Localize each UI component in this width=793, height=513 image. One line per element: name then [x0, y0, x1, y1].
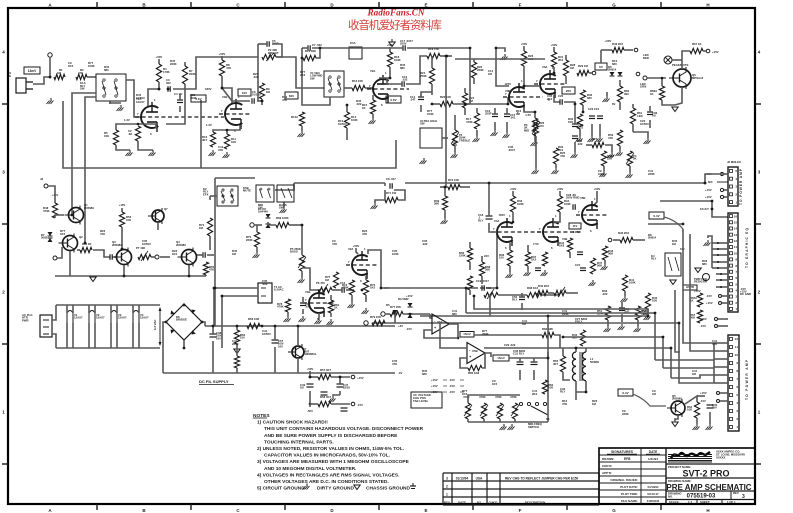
svg-text:4K7: 4K7: [202, 138, 208, 142]
svg-text:2K2: 2K2: [532, 392, 538, 396]
svg-text:47K: 47K: [712, 342, 717, 346]
svg-text:01/13/94: 01/13/94: [648, 485, 659, 489]
svg-text:15mV: 15mV: [463, 332, 471, 336]
svg-text:100K: 100K: [517, 202, 524, 206]
svg-text:10: 10: [735, 353, 739, 357]
svg-text:100K: 100K: [598, 172, 605, 176]
svg-text:FILE NAME:: FILE NAME:: [621, 499, 638, 503]
svg-text:SWITCH: SWITCH: [528, 425, 539, 429]
svg-text:84V: 84V: [289, 94, 294, 98]
svg-text:100K: 100K: [427, 112, 434, 116]
svg-text:100K: 100K: [394, 58, 401, 62]
svg-text:6V: 6V: [599, 65, 603, 69]
svg-text:CHK'D:: CHK'D:: [602, 464, 612, 468]
svg-text:1M: 1M: [652, 392, 657, 396]
svg-text:1 OF 1: 1 OF 1: [727, 500, 736, 504]
svg-text:+50V: +50V: [551, 43, 558, 47]
svg-text:0.4V: 0.4V: [653, 214, 659, 218]
svg-text:10K: 10K: [652, 299, 657, 303]
svg-text:+50V: +50V: [353, 244, 360, 248]
svg-text:C20: C20: [558, 94, 564, 98]
svg-text:+50V: +50V: [594, 187, 601, 191]
svg-text:SIGNATURES: SIGNATURES: [611, 450, 634, 454]
svg-text:180V: 180V: [205, 87, 212, 91]
svg-text:09:43:17: 09:43:17: [647, 492, 659, 496]
svg-text:R77 20K: R77 20K: [390, 305, 401, 309]
svg-text:1M: 1M: [488, 72, 493, 76]
svg-text:PWR: PWR: [22, 318, 29, 322]
svg-text:22K: 22K: [607, 157, 612, 161]
svg-text:1K5: 1K5: [531, 258, 537, 262]
svg-text:H: H: [706, 508, 709, 513]
svg-text:.022: .022: [356, 102, 362, 106]
svg-text:1K5: 1K5: [60, 232, 66, 236]
svg-text:.022: .022: [422, 242, 428, 246]
svg-text:RED/GRN: RED/GRN: [694, 280, 707, 284]
svg-text:10V: 10V: [242, 91, 247, 95]
svg-text:1M: 1M: [570, 66, 575, 70]
svg-text:R57 4K7: R57 4K7: [320, 368, 331, 372]
svg-text:2K2: 2K2: [300, 73, 306, 77]
svg-text:10/100: 10/100: [252, 93, 261, 97]
svg-text:16V: 16V: [278, 344, 283, 348]
svg-text:1.5V: 1.5V: [525, 113, 531, 117]
svg-text:.022: .022: [305, 305, 311, 309]
svg-text:220K: 220K: [232, 342, 239, 346]
svg-text:220K: 220K: [246, 238, 253, 242]
svg-text:-15V: -15V: [700, 399, 706, 403]
svg-text:SW: SW: [279, 206, 284, 210]
svg-text:H: H: [706, 3, 709, 8]
svg-text:C7 .022: C7 .022: [312, 43, 322, 47]
svg-text:DC FIL SUPPLY: DC FIL SUPPLY: [199, 379, 229, 384]
svg-text:+50V: +50V: [219, 52, 226, 56]
svg-text:Q2: Q2: [79, 235, 83, 239]
svg-text:XXXXX: XXXXX: [716, 455, 725, 459]
svg-text:DATE: DATE: [458, 501, 466, 505]
svg-text:5) CIRCUIT GROUND: 5) CIRCUIT GROUND: [257, 486, 305, 492]
svg-text:MID: MID: [524, 128, 529, 132]
svg-text:.0047: .0047: [508, 148, 515, 152]
svg-text:1N4448: 1N4448: [258, 210, 268, 214]
svg-text:470: 470: [539, 124, 544, 128]
svg-text:12AX7: 12AX7: [136, 100, 145, 104]
svg-text:2N5089: 2N5089: [176, 243, 186, 247]
svg-text:2N5089: 2N5089: [84, 206, 94, 210]
svg-text:R38 1K2: R38 1K2: [527, 286, 538, 290]
svg-text:100K: 100K: [351, 118, 358, 122]
svg-text:25V: 25V: [712, 406, 717, 410]
svg-text:R49 2K2: R49 2K2: [612, 42, 623, 46]
svg-text:10K: 10K: [231, 140, 236, 144]
svg-text:J3: J3: [40, 177, 44, 181]
svg-text:CHK'D: CHK'D: [489, 501, 498, 505]
svg-text:10K: 10K: [104, 134, 109, 138]
svg-text:1K: 1K: [334, 306, 338, 310]
svg-text:V3B: V3B: [505, 89, 510, 93]
svg-text:J2 MOLEX: J2 MOLEX: [727, 160, 741, 164]
svg-text:10K: 10K: [126, 218, 131, 222]
svg-text:01/13/94: 01/13/94: [456, 477, 469, 481]
svg-text:TO GRAPHIC EQ: TO GRAPHIC EQ: [745, 227, 749, 268]
svg-text:100K: 100K: [88, 64, 95, 68]
svg-text:15: 15: [734, 220, 738, 224]
svg-text:+15V: +15V: [705, 188, 712, 192]
svg-text:-15V: -15V: [449, 384, 455, 388]
svg-text:13: 13: [734, 233, 738, 237]
svg-text:DATE: DATE: [649, 450, 657, 454]
svg-text:RLY: RLY: [651, 257, 656, 261]
svg-text:DESCRIPTION: DESCRIPTION: [525, 501, 546, 505]
svg-text:680: 680: [612, 62, 617, 66]
svg-text:1K8: 1K8: [559, 244, 565, 248]
svg-text:1K: 1K: [362, 106, 366, 110]
svg-text:56K: 56K: [608, 252, 613, 256]
svg-text:PEAK/MUTE: PEAK/MUTE: [672, 63, 689, 67]
svg-text:TOUCHING INTERNAL PARTS.: TOUCHING INTERNAL PARTS.: [264, 439, 334, 445]
svg-text:1M: 1M: [672, 242, 677, 246]
svg-text:220K: 220K: [648, 172, 655, 176]
svg-text:150: 150: [499, 256, 504, 260]
svg-text:3: 3: [446, 477, 448, 481]
svg-text:13mV: 13mV: [28, 69, 37, 73]
svg-text:+50V: +50V: [521, 42, 528, 46]
svg-text:R40 2K2: R40 2K2: [538, 284, 549, 288]
svg-text:CAPACITOR VALUES IN MICROFARAD: CAPACITOR VALUES IN MICROFARADS, 50V-10%…: [264, 453, 390, 459]
svg-text:R35 50K: R35 50K: [480, 286, 491, 290]
svg-text:250V: 250V: [400, 42, 407, 46]
svg-text:1M: 1M: [592, 402, 597, 406]
svg-text:1K5: 1K5: [370, 286, 376, 290]
svg-text:-15V: -15V: [449, 378, 455, 382]
svg-text:2N914: 2N914: [608, 68, 617, 72]
svg-text:C29 .022: C29 .022: [504, 343, 516, 347]
svg-text:12: 12: [734, 239, 738, 243]
svg-text:+3V: +3V: [398, 324, 403, 328]
svg-text:100K: 100K: [392, 252, 399, 256]
svg-text:.022: .022: [602, 292, 608, 296]
svg-text:01000432: 01000432: [647, 499, 660, 503]
svg-text:47K: 47K: [452, 143, 457, 147]
svg-text:G: G: [612, 508, 616, 513]
svg-text:REV: REV: [444, 501, 450, 505]
svg-text:.022: .022: [253, 75, 259, 79]
svg-text:PLOT TIME:: PLOT TIME:: [621, 492, 638, 496]
svg-text:250P: 250P: [485, 112, 492, 116]
svg-text:12AX7: 12AX7: [96, 316, 105, 320]
svg-text:SVT-2 PRO: SVT-2 PRO: [682, 469, 729, 479]
svg-text:ORIGINAL ISSUED:: ORIGINAL ISSUED:: [610, 478, 638, 482]
svg-text:IN: IN: [8, 74, 11, 78]
svg-text:SW: SW: [420, 122, 425, 126]
svg-text:R69 100K: R69 100K: [276, 216, 289, 220]
svg-text:+15V: +15V: [706, 301, 713, 305]
svg-text:E: E: [424, 508, 427, 513]
svg-text:+15V: +15V: [700, 317, 707, 321]
svg-text:10: 10: [734, 251, 738, 255]
svg-text:RLY: RLY: [478, 218, 483, 222]
svg-text:TO POWER AMP: TO POWER AMP: [739, 168, 743, 205]
svg-text:0.6V: 0.6V: [390, 98, 396, 102]
svg-text:AND 10 MEGOHM DIGITAL VOLTMETE: AND 10 MEGOHM DIGITAL VOLTMETER.: [264, 466, 356, 472]
svg-text:USA: USA: [476, 477, 483, 481]
svg-text:47K: 47K: [282, 98, 287, 102]
svg-text:R19 47K: R19 47K: [428, 47, 439, 51]
svg-text:150K: 150K: [459, 254, 466, 258]
svg-text:TAB LEVEL: TAB LEVEL: [413, 399, 429, 403]
svg-text:1.3V: 1.3V: [124, 118, 130, 122]
svg-text:V5B: V5B: [580, 196, 585, 200]
svg-text:TREBLE: TREBLE: [459, 138, 470, 142]
svg-text:APP'D:: APP'D:: [602, 471, 612, 475]
svg-text:4K7: 4K7: [553, 362, 559, 366]
svg-text:56K: 56K: [597, 264, 602, 268]
svg-text:220K: 220K: [562, 312, 569, 316]
svg-text:470K: 470K: [342, 286, 349, 290]
svg-text:47K: 47K: [392, 362, 397, 366]
svg-text:1.3V: 1.3V: [206, 123, 212, 127]
svg-text:220K: 220K: [622, 412, 629, 416]
svg-text:+15V: +15V: [357, 376, 364, 380]
svg-text:TO POWER AMP: TO POWER AMP: [745, 359, 749, 400]
svg-text:2K2: 2K2: [558, 148, 564, 152]
svg-text:170K: 170K: [163, 70, 170, 74]
svg-text:47K: 47K: [100, 232, 105, 236]
svg-text:U5B: U5B: [472, 349, 478, 353]
svg-text:2K2: 2K2: [558, 58, 564, 62]
svg-text:+50V: +50V: [156, 55, 163, 59]
svg-text:12AX7: 12AX7: [74, 316, 83, 320]
svg-text:15K: 15K: [568, 120, 573, 124]
svg-text:RLY: RLY: [512, 298, 517, 302]
svg-text:680: 680: [400, 66, 405, 70]
svg-text:-3V: -3V: [398, 371, 402, 375]
svg-text:.022: .022: [577, 142, 583, 146]
svg-text:165V: 165V: [498, 213, 505, 217]
svg-text:47K: 47K: [608, 136, 613, 140]
svg-text:+15V: +15V: [700, 391, 707, 395]
svg-text:F: F: [519, 3, 522, 8]
svg-text:470K: 470K: [277, 305, 284, 309]
svg-text:C22: C22: [578, 126, 584, 130]
svg-text:14: 14: [734, 227, 738, 231]
svg-text:47K: 47K: [226, 66, 231, 70]
svg-text:10/50V: 10/50V: [262, 332, 271, 336]
svg-text:THERMAL: THERMAL: [303, 352, 317, 356]
svg-text:470K: 470K: [43, 209, 50, 213]
svg-text:C8 .047: C8 .047: [386, 177, 396, 181]
svg-text:56K: 56K: [485, 268, 490, 272]
svg-text:075519-03: 075519-03: [687, 494, 716, 500]
svg-text:BY: BY: [477, 501, 481, 505]
svg-text:C4 10/: C4 10/: [174, 92, 182, 96]
svg-text:R79 10K: R79 10K: [370, 315, 381, 319]
svg-text:47K: 47K: [332, 242, 337, 246]
svg-text:12AX7: 12AX7: [118, 316, 127, 320]
svg-text:22/25: 22/25: [343, 386, 350, 390]
svg-text:47K: 47K: [560, 154, 565, 158]
svg-text:2: 2: [446, 485, 448, 489]
svg-text:R67 1K: R67 1K: [692, 42, 701, 46]
svg-text:16: 16: [734, 214, 738, 218]
svg-text:G: G: [612, 3, 616, 8]
svg-text:-15V: -15V: [700, 324, 706, 328]
svg-text:220K: 220K: [477, 68, 484, 72]
svg-text:C23 C24: C23 C24: [588, 107, 599, 111]
svg-text:2N5089: 2N5089: [112, 243, 122, 247]
svg-text:150: 150: [240, 336, 245, 340]
svg-text:680: 680: [422, 372, 427, 376]
svg-text:+50V: +50V: [605, 39, 612, 43]
svg-text:680: 680: [452, 312, 457, 316]
svg-text:SW: SW: [80, 87, 85, 91]
svg-text:11V: 11V: [573, 224, 578, 228]
svg-text:S3: S3: [546, 417, 550, 421]
svg-text:47K: 47K: [78, 71, 83, 75]
svg-text:2N914: 2N914: [648, 236, 657, 240]
svg-text:.022: .022: [402, 78, 408, 82]
svg-text:1M: 1M: [199, 226, 204, 230]
svg-text:N/C: N/C: [708, 180, 713, 184]
svg-text:P7 10K: P7 10K: [136, 246, 145, 250]
svg-text:F: F: [519, 508, 522, 513]
svg-text:10/50V: 10/50V: [640, 122, 649, 126]
svg-text:1M: 1M: [516, 112, 521, 116]
svg-text:+15V: +15V: [712, 50, 719, 54]
svg-text:47K: 47K: [562, 402, 567, 406]
svg-text:V3A: V3A: [542, 65, 547, 69]
svg-text:EFB: EFB: [624, 457, 631, 461]
svg-text:+15V: +15V: [406, 294, 413, 298]
svg-text:-15V: -15V: [706, 294, 712, 298]
svg-text:FAULT: FAULT: [700, 207, 709, 211]
svg-text:47K: 47K: [362, 232, 367, 236]
svg-text:10/50V: 10/50V: [338, 122, 347, 126]
svg-text:15mV: 15mV: [497, 356, 505, 360]
svg-text:25V: 25V: [566, 89, 571, 93]
svg-text:.047: .047: [410, 98, 416, 102]
svg-text:680: 680: [587, 96, 592, 100]
svg-text:220K: 220K: [170, 62, 177, 66]
svg-text:THIS UNIT CONTAINS HAZARDOUS V: THIS UNIT CONTAINS HAZARDOUS VOLTAGE. DI…: [264, 426, 424, 432]
svg-text:390: 390: [624, 92, 629, 96]
svg-text:-15V: -15V: [406, 327, 412, 331]
svg-text:R12 10K: R12 10K: [352, 79, 363, 83]
svg-text:680: 680: [702, 262, 707, 266]
svg-text:R46 2K2: R46 2K2: [618, 231, 629, 235]
svg-text:R72 10K: R72 10K: [448, 178, 459, 182]
svg-text:1K5: 1K5: [68, 64, 74, 68]
svg-text:470K: 470K: [466, 120, 473, 124]
svg-text:BRIDGE: BRIDGE: [176, 318, 187, 322]
svg-text:10/50V: 10/50V: [136, 96, 145, 100]
svg-text:MPSA13: MPSA13: [692, 76, 704, 80]
svg-text:MUTE: MUTE: [243, 189, 251, 193]
svg-text:100K: 100K: [629, 281, 636, 285]
svg-text:47K: 47K: [218, 148, 223, 152]
svg-text:24V: 24V: [484, 254, 489, 258]
svg-text:Q7: Q7: [164, 207, 168, 211]
svg-text:AND BE SURE POWER SUPPLY IS DI: AND BE SURE POWER SUPPLY IS DISCHARGED B…: [264, 433, 398, 439]
svg-text:145V: 145V: [573, 230, 580, 234]
svg-text:NO.: NO.: [668, 494, 673, 498]
svg-text:10/: 10/: [652, 114, 656, 118]
svg-text:-15V: -15V: [357, 403, 363, 407]
svg-text:.022: .022: [642, 312, 648, 316]
svg-text:5K: 5K: [633, 157, 637, 161]
svg-text:3) VOLTAGES ARE MEASURED WITH: 3) VOLTAGES ARE MEASURED WITH 1 MEGOHM O…: [257, 459, 410, 465]
svg-text:+15V: +15V: [431, 384, 438, 388]
svg-text:R27: R27: [592, 137, 598, 141]
svg-text:100K: 100K: [190, 96, 197, 100]
svg-text:REV CHG TO REFLECT JUMPER CHG: REV CHG TO REFLECT JUMPER CHG PER E150: [505, 477, 578, 481]
svg-text:12AX7: 12AX7: [140, 316, 149, 320]
svg-text:6.3VAC: 6.3VAC: [274, 288, 284, 292]
svg-text:SW: SW: [310, 76, 315, 80]
svg-text:5082: 5082: [41, 236, 48, 240]
svg-text:R14A: R14A: [291, 115, 298, 119]
svg-text:REV: REV: [733, 491, 739, 495]
svg-text:RLY: RLY: [560, 390, 565, 394]
svg-text:+50V: +50V: [557, 187, 564, 191]
svg-text:220K: 220K: [189, 72, 196, 76]
svg-text:.022: .022: [262, 282, 268, 286]
svg-text:1: 1: [446, 493, 448, 497]
svg-text:250K: 250K: [420, 74, 427, 78]
svg-text:2) UNLESS NOTED, RESISTOR VALU: 2) UNLESS NOTED, RESISTOR VALUES IN OHMS…: [257, 446, 404, 452]
svg-text:1/31/94: 1/31/94: [648, 457, 658, 461]
svg-text:2N5089: 2N5089: [672, 397, 682, 401]
svg-text:100K: 100K: [564, 202, 571, 206]
svg-text:收音机爱好者资料库: 收音机爱好者资料库: [348, 18, 442, 32]
svg-text:R82 1K8: R82 1K8: [468, 371, 479, 375]
svg-text:-50V: -50V: [307, 409, 313, 413]
svg-text:LED: LED: [637, 114, 643, 118]
svg-text:1K: 1K: [650, 92, 654, 96]
svg-text:1K5: 1K5: [462, 392, 468, 396]
svg-text:6.4V: 6.4V: [622, 391, 628, 395]
svg-text:39K: 39K: [434, 202, 439, 206]
svg-text:R71 1W: R71 1W: [386, 191, 396, 195]
svg-text:7.5V: 7.5V: [533, 242, 539, 246]
svg-text:4) VOLTAGES IN RECTANGLES ARE: 4) VOLTAGES IN RECTANGLES ARE RMS SIGNAL…: [257, 472, 399, 478]
svg-text:K3A: K3A: [350, 41, 356, 45]
svg-text:EFX: EFX: [203, 192, 209, 196]
svg-text:V1B: V1B: [305, 290, 310, 294]
svg-text:V1B: V1B: [222, 95, 227, 99]
svg-text:R29 1M: R29 1M: [578, 64, 588, 68]
svg-text:+15V: +15V: [431, 378, 438, 382]
svg-text:250V RND: 250V RND: [566, 196, 579, 200]
svg-text:220K: 220K: [482, 332, 489, 336]
svg-text:BASS: BASS: [290, 250, 298, 254]
svg-text:E: E: [424, 3, 427, 8]
svg-text:SHEET:: SHEET:: [700, 500, 710, 504]
svg-text:+50V: +50V: [510, 187, 517, 191]
svg-text:022: 022: [166, 81, 171, 85]
svg-text:D5: D5: [386, 303, 390, 307]
svg-text:1K5: 1K5: [172, 252, 178, 256]
svg-text:6.3 VAC: 6.3 VAC: [153, 320, 157, 330]
svg-text:11: 11: [735, 345, 739, 349]
svg-text:R63 10R: R63 10R: [248, 317, 259, 321]
svg-text:-15V: -15V: [449, 390, 455, 394]
svg-text:10K: 10K: [548, 386, 553, 390]
svg-text:RadioFans.CN: RadioFans.CN: [367, 8, 425, 18]
svg-text:C31 RLY: C31 RLY: [513, 352, 524, 356]
svg-text:10/: 10/: [300, 386, 304, 390]
svg-text:C24: C24: [575, 263, 581, 267]
